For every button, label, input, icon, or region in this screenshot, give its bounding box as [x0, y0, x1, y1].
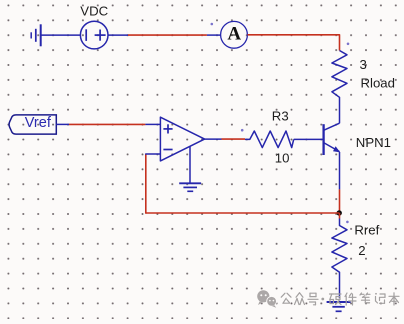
wire: Vref stub (blue): [56, 123, 69, 125]
label NPN1: [356, 135, 391, 150]
wire: feedback vertical (red): [145, 154, 147, 214]
wire: emitter down (blue): [339, 152, 341, 189]
resistor Rload: [332, 51, 347, 124]
svg-text:Rref: Rref: [354, 223, 379, 238]
wire: non-inverting input stub (blue): [145, 123, 160, 125]
svg-text:NPN1: NPN1: [356, 135, 391, 150]
transistor NPN1 (base bar): [322, 124, 324, 155]
DC voltage source VDC: [80, 21, 108, 49]
node marker (Rref top): [346, 221, 349, 224]
wire: junction to Rref (red stub): [339, 213, 341, 219]
resistor R3: [245, 131, 294, 148]
transistor NPN1 emitter with arrow: [324, 143, 341, 153]
watermark icon (chat bubbles): [257, 290, 276, 308]
svg-text:Rload: Rload: [361, 75, 395, 90]
svg-text:R3: R3: [272, 108, 289, 123]
svg-text:3: 3: [360, 57, 367, 72]
wire: ammeter to Rload (red): [248, 35, 340, 51]
value 2 (Rref): [358, 243, 365, 258]
node marker (left of ammeter): [211, 23, 214, 26]
transistor NPN1 collector: [324, 123, 340, 130]
value 10 (R3): [275, 151, 290, 166]
ground (below Rref): [327, 302, 351, 311]
wire: R3 to base (blue): [294, 138, 323, 140]
label Rref: [354, 223, 379, 238]
wire: emitter to junction (red): [339, 189, 341, 213]
wire: VDC to ammeter (red): [128, 34, 207, 36]
label R3: [272, 108, 289, 123]
ground (left of VDC source): [31, 24, 41, 46]
net label Vref (tag): [9, 115, 56, 134]
ground (op-amp): [179, 183, 201, 191]
wire: red to ammeter pin: [207, 34, 221, 36]
wire: VDC to ammeter (blue stub): [108, 34, 128, 36]
svg-text:A: A: [227, 24, 241, 45]
label VDC: [80, 3, 108, 18]
wire: op-amp output stub (blue): [205, 138, 222, 140]
ammeter A1: [221, 21, 248, 48]
wire: inverting input stub (blue): [145, 153, 160, 155]
wire: Vref to op-amp (red): [69, 123, 145, 125]
svg-text:Vref: Vref: [25, 115, 52, 131]
svg-text:VDC: VDC: [80, 3, 108, 18]
label Rload: [361, 75, 395, 90]
node marker (Rload top): [347, 43, 350, 46]
wire: junction to feedback corner (red): [146, 212, 340, 214]
value 3 (Rload): [360, 57, 367, 72]
wire: ground to VDC: [42, 34, 81, 36]
svg-text:2: 2: [358, 243, 365, 258]
op-amp U1: [160, 117, 204, 161]
wire: output to R3 (red): [222, 138, 246, 140]
junction node (emitter/Rref/feedback): [337, 210, 342, 215]
resistor Rref: [332, 219, 347, 299]
watermark text 公众号·硬件笔记本: [281, 293, 399, 305]
wire: op-amp ground stem: [189, 146, 191, 183]
node marker (left of R3): [241, 129, 244, 132]
svg-text:10: 10: [275, 151, 290, 166]
